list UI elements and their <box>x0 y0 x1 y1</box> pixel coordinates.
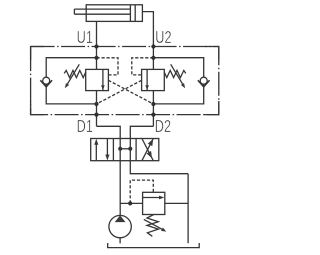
check valve CV1 branch box (left) <box>46 58 96 77</box>
valve block enclosure (dash-dot) <box>31 47 219 115</box>
counterbalance valve V1 spring <box>64 70 86 77</box>
counterbalance valve V2 adjust arrow <box>171 64 183 84</box>
junction node relief pilot tee <box>128 201 132 205</box>
junction node D2 branch <box>151 102 155 106</box>
counterbalance valve V1 body <box>86 69 109 90</box>
wire U1 from cylinder to valve block <box>96 21 98 69</box>
wire P from directional valve to pump <box>119 139 121 216</box>
counterbalance valve V1 internal pilot (dashed) <box>97 58 119 75</box>
relief valve RV body <box>143 192 165 214</box>
directional valve DV right box crossed arrows <box>142 139 153 161</box>
svg-text:D2: D2 <box>155 117 171 136</box>
wire U2 from cylinder rod end <box>142 12 153 70</box>
directional valve DV outline <box>91 139 159 161</box>
check valve CV2 ball <box>200 77 207 84</box>
junction node D2/enclosure <box>151 113 155 117</box>
junction node U1/enclosure <box>94 44 98 48</box>
counterbalance valve V2 internal pilot (dashed) <box>132 58 154 75</box>
counterbalance valve V2 flow path arrow <box>146 69 148 90</box>
junction node U2/enclosure <box>151 44 155 48</box>
junction node D1/enclosure <box>94 113 98 117</box>
counterbalance valve V2 cross pilot to D1 (dashed) <box>97 80 142 104</box>
directional valve DV position dividers <box>113 139 136 161</box>
wire U1 through valve V1 to port D1 <box>96 91 98 127</box>
cylinder piston <box>130 5 135 22</box>
counterbalance valve V2 body <box>142 69 165 90</box>
cylinder rod <box>74 9 130 14</box>
counterbalance valve V1 cross pilot to D2 (dashed) <box>108 80 153 104</box>
relief valve RV pilot (dashed) <box>130 180 153 203</box>
pump P1 direction triangle <box>115 215 126 222</box>
cylinder body <box>86 5 142 22</box>
counterbalance valve V2 spring <box>164 70 186 77</box>
directional valve DV centre box H-connection <box>120 148 130 150</box>
check valve CV1 ball <box>43 77 50 84</box>
wire U2 through valve V2 to port D2 <box>152 91 154 127</box>
wire tank drop line <box>187 174 189 244</box>
relief valve RV inlet wire <box>120 202 142 204</box>
relief valve RV spring <box>147 215 158 237</box>
enclosure corner patches <box>31 47 219 115</box>
junction node pilot tee left <box>94 56 98 60</box>
junction node D1 branch <box>94 102 98 106</box>
wire T from directional valve to tank drop <box>130 139 188 174</box>
relief valve RV adjust arrow <box>144 219 163 229</box>
svg-text:U1: U1 <box>77 28 93 47</box>
relief valve RV outlet wire <box>165 202 188 204</box>
svg-text:U2: U2 <box>155 28 171 47</box>
directional valve DV left box arrows <box>95 143 97 161</box>
counterbalance valve V1 adjust arrow <box>67 64 79 84</box>
pump P1 circle <box>109 215 131 237</box>
svg-text:D1: D1 <box>77 117 93 136</box>
tank T1 <box>108 243 200 248</box>
wire D2 jog to directional valve port B <box>130 126 153 138</box>
counterbalance valve V1 flow path arrow <box>102 69 104 90</box>
junction node pilot tee right <box>151 56 155 60</box>
pump P1 suction wire <box>119 238 121 244</box>
check valve CV2 seat <box>198 80 210 87</box>
check valve CV2 branch box (right) <box>153 58 203 77</box>
wire D1 jog to directional valve port A <box>97 126 121 138</box>
check valve CV1 seat <box>40 80 52 87</box>
relief valve RV flow arrow <box>143 197 161 199</box>
